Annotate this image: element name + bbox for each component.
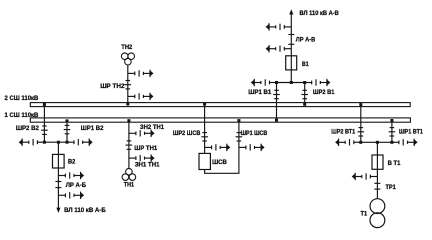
svg-text:ЛР А-В: ЛР А-В bbox=[296, 37, 316, 44]
svg-text:ТН2: ТН2 bbox=[121, 44, 132, 51]
earthing knife at B1 junction (left) bbox=[251, 79, 277, 86]
voltage transformer TH1 (ТН1) bbox=[122, 168, 136, 180]
node ШР2 В2-bus2 bbox=[43, 103, 46, 106]
busbar 1 (1 СШ 110кВ) bbox=[30, 118, 410, 122]
wire drop ШР2 В2 bbox=[43, 104, 45, 142]
svg-text:ШР1 В2: ШР1 В2 bbox=[81, 125, 104, 132]
node B1 junction center bbox=[290, 81, 293, 84]
breaker ШСВ bbox=[199, 153, 210, 169]
svg-text:Т1: Т1 bbox=[361, 211, 368, 218]
earthing knife on B1 feeder (lower) bbox=[266, 45, 292, 52]
svg-text:ШР2 В2: ШР2 В2 bbox=[16, 125, 39, 132]
line disconnector ЛР А-В bbox=[288, 35, 294, 45]
wire drop ШР2 В1 bbox=[304, 83, 306, 105]
svg-text:ШР2 В1: ШР2 В1 bbox=[313, 89, 335, 96]
line disconnector ЛР А-Б bbox=[55, 182, 61, 188]
svg-text:ЗН1 ТН1: ЗН1 ТН1 bbox=[135, 161, 160, 168]
svg-text:ВЛ 110 кВ А-В: ВЛ 110 кВ А-В bbox=[300, 10, 340, 17]
wire B1 feeder bbox=[290, 14, 292, 83]
earthing knife on ШСВ left drop bbox=[205, 144, 231, 151]
svg-text:ШР2 ШСВ: ШР2 ШСВ bbox=[173, 130, 201, 137]
wire TH1 feeder bbox=[128, 121, 130, 169]
svg-text:ШР1 ВТ1: ШР1 ВТ1 bbox=[399, 128, 423, 135]
wire drop ШР2 ВТ1 bbox=[360, 105, 362, 143]
disconnector ШР2 В2 bbox=[41, 126, 48, 134]
disconnector ШР1 ВТ1 bbox=[389, 128, 396, 136]
earthing knife on ШСВ right drop bbox=[239, 144, 265, 151]
node B1 junction left bbox=[275, 81, 278, 84]
node B2 junction left bbox=[43, 141, 46, 144]
earthing knife at B1 junction (right) bbox=[305, 79, 331, 86]
svg-text:ТН1: ТН1 bbox=[124, 182, 135, 189]
disconnector ШР1 ШСВ bbox=[236, 133, 243, 141]
node ШР2 В1-bus2 bbox=[303, 103, 306, 106]
svg-text:2 СШ 110кВ: 2 СШ 110кВ bbox=[5, 95, 39, 102]
breaker B1 (В1) bbox=[286, 56, 297, 70]
node ШР2 ШСВ-bus2 bbox=[203, 103, 206, 106]
node ШР1 В2-bus1 bbox=[66, 119, 69, 122]
svg-text:В Т1: В Т1 bbox=[388, 160, 401, 167]
disconnector ШР1 В2 bbox=[64, 125, 71, 133]
wire ВТ1 junction bbox=[361, 141, 392, 143]
breaker B2 (В2) bbox=[53, 154, 65, 168]
disconnector ШР ТН2 bbox=[125, 81, 132, 89]
earthing knife on ВТ1 feeder bbox=[352, 173, 378, 180]
svg-text:ТР1: ТР1 bbox=[386, 184, 397, 191]
node TH2-bus2 bbox=[126, 103, 129, 106]
node ШР1 В1-bus1 bbox=[275, 119, 278, 122]
earthing knife on B2 feeder (lower) bbox=[58, 192, 84, 199]
earthing knife ЗН2 ТН1 bbox=[129, 130, 155, 137]
line arrow ВЛ 110 кВ А-Б bbox=[56, 208, 60, 213]
wire drop ШР2 ШСВ bbox=[204, 104, 206, 154]
earthing knife ЗН1 ТН1 bbox=[129, 154, 155, 161]
wire B2 junction bbox=[44, 141, 67, 143]
svg-text:ШР1 ШСВ: ШР1 ШСВ bbox=[241, 130, 268, 137]
wire B1 junction bbox=[277, 82, 305, 84]
svg-text:В1: В1 bbox=[302, 61, 309, 68]
node ВТ1 junction right bbox=[390, 141, 393, 144]
svg-text:1 СШ 110кВ: 1 СШ 110кВ bbox=[5, 112, 39, 119]
earthing knife on B2 feeder (upper) bbox=[58, 172, 84, 179]
svg-text:ШР ТН1: ШР ТН1 bbox=[134, 145, 157, 152]
breaker В Т1 bbox=[372, 155, 383, 169]
disconnector ШР2 ШСВ bbox=[201, 133, 208, 141]
svg-text:ЛР А-Б: ЛР А-Б bbox=[66, 182, 87, 189]
svg-text:ШР ТН2: ШР ТН2 bbox=[100, 83, 125, 90]
line disconnector ТР1 bbox=[374, 183, 380, 189]
node ВТ1 junction center bbox=[376, 141, 379, 144]
wire drop ШР1 ВТ1 bbox=[391, 120, 393, 142]
line arrow ВЛ 110 кВ А-В bbox=[289, 9, 293, 14]
node B2 junction right bbox=[66, 141, 69, 144]
node ШР1 ШСВ-bus1 bbox=[237, 119, 240, 122]
svg-text:ЗН2 ТН1: ЗН2 ТН1 bbox=[140, 124, 165, 131]
wire ВТ1 feeder bbox=[376, 142, 378, 199]
voltage transformer TH2 (ТН2) bbox=[121, 53, 134, 65]
node ВТ1 junction left bbox=[359, 141, 362, 144]
disconnector ШР2 В1 bbox=[301, 90, 308, 98]
disconnector ШР2 ВТ1 bbox=[358, 128, 365, 136]
wire ШСВ bottom link bbox=[205, 121, 239, 174]
node TH1-bus1 bbox=[127, 119, 130, 122]
svg-text:ВЛ 110 кВ А-Б: ВЛ 110 кВ А-Б bbox=[64, 207, 106, 214]
disconnector ШР1 В1 bbox=[273, 90, 280, 98]
svg-text:ШР1 В1: ШР1 В1 bbox=[248, 89, 271, 96]
node ШР1 ВТ1-bus1 bbox=[390, 119, 393, 122]
earthing knife at B2 junction (right) bbox=[67, 139, 93, 146]
transformer T1 (Т1) bbox=[370, 199, 385, 228]
wire drop ШР1 В1 bbox=[276, 83, 278, 121]
earthing knife at ВТ1 junction (left) bbox=[335, 139, 361, 146]
busbar 2 (2 СШ 110кВ) bbox=[30, 103, 410, 107]
svg-text:ШР2 ВТ1: ШР2 ВТ1 bbox=[331, 128, 355, 135]
svg-text:ШСВ: ШСВ bbox=[212, 159, 227, 166]
disconnector ШР ТН1 bbox=[126, 141, 133, 149]
earthing knife on TH2 feeder (upper) bbox=[128, 70, 154, 77]
wire TH2 feeder bbox=[127, 65, 129, 104]
svg-text:В2: В2 bbox=[68, 158, 76, 165]
node ШР2 ВТ1-bus2 bbox=[359, 103, 362, 106]
earthing knife at ВТ1 junction (right) bbox=[392, 139, 418, 146]
earthing knife at B2 junction (left) bbox=[19, 139, 45, 146]
node B1 junction right bbox=[303, 81, 306, 84]
earthing knife on TH2 feeder (lower) bbox=[128, 93, 154, 100]
node B2 junction center bbox=[57, 141, 60, 144]
wire drop ШР1 В2 bbox=[66, 121, 68, 142]
wire B2 feeder bbox=[57, 142, 59, 208]
earthing knife on B1 feeder (upper) bbox=[266, 23, 292, 30]
